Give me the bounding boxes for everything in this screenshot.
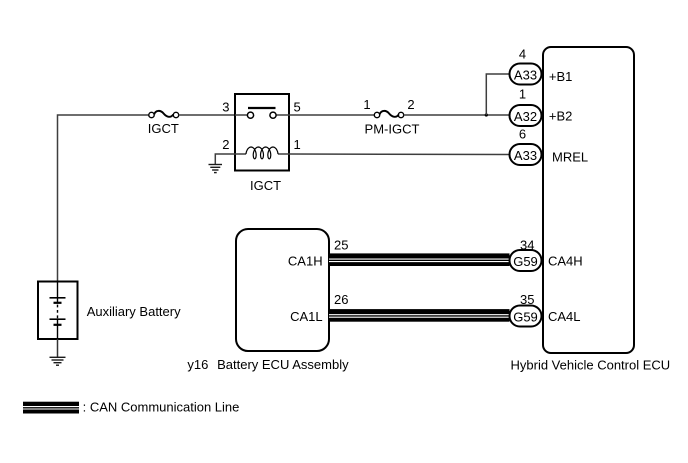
svg-text:6: 6 — [519, 127, 526, 142]
wire: branch junction to connector A33 +B1 — [486, 74, 509, 115]
svg-text:1: 1 — [294, 137, 301, 152]
ground (battery) — [50, 357, 66, 365]
svg-text:A33: A33 — [514, 148, 537, 163]
wire: relay pin 5 to fuse PM-IGCT — [289, 114, 374, 116]
CAN line CA1H-CA4H — [329, 253, 510, 266]
svg-text:Battery ECU Assembly: Battery ECU Assembly — [217, 357, 349, 372]
svg-text:26: 26 — [334, 292, 348, 307]
wire: fuse PM-IGCT to connector A32 — [404, 114, 510, 116]
fuse PM-IGCT — [374, 111, 403, 118]
relay IGCT box — [235, 94, 289, 171]
svg-text:+B2: +B2 — [549, 109, 573, 124]
wire: fuse IGCT to relay pin 3 — [179, 114, 235, 116]
svg-text:A32: A32 — [514, 109, 537, 124]
svg-text:: CAN Communication Line: : CAN Communication Line — [83, 400, 240, 415]
svg-text:+B1: +B1 — [549, 69, 573, 84]
svg-text:IGCT: IGCT — [148, 121, 179, 136]
svg-text:2: 2 — [407, 97, 414, 112]
svg-text:4: 4 — [519, 47, 526, 62]
svg-text:CA1H: CA1H — [288, 254, 323, 269]
wire: relay pin 2 to ground — [215, 154, 235, 164]
svg-text:5: 5 — [294, 100, 301, 115]
connector A32 (+B2) — [510, 105, 542, 126]
svg-text:CA4L: CA4L — [548, 309, 581, 324]
svg-text:CA1L: CA1L — [290, 309, 323, 324]
svg-text:2: 2 — [222, 137, 229, 152]
svg-text:IGCT: IGCT — [250, 178, 281, 193]
legend CAN sample line — [23, 402, 79, 414]
node junction dot — [485, 113, 488, 116]
wire: battery to ground — [57, 339, 59, 357]
svg-text:A33: A33 — [514, 67, 537, 82]
connector A33 (+B1) — [510, 64, 542, 85]
relay coil — [235, 147, 289, 159]
wire: battery feed, left vertical + top horizontal to fuse IGCT — [58, 115, 149, 282]
Hybrid Vehicle Control ECU box — [543, 47, 634, 353]
svg-text:G59: G59 — [513, 254, 538, 269]
battery cells — [50, 282, 66, 340]
svg-text:25: 25 — [334, 238, 348, 253]
wire: relay pin 1 to connector A33 MREL — [289, 153, 510, 156]
connector A33 (MREL) — [510, 144, 542, 165]
svg-text:Hybrid Vehicle Control ECU: Hybrid Vehicle Control ECU — [511, 358, 671, 373]
svg-text:G59: G59 — [513, 309, 538, 324]
connector G59 (CA4L) — [510, 306, 542, 327]
svg-text:MREL: MREL — [552, 150, 588, 165]
Battery ECU Assembly box — [236, 229, 329, 351]
svg-text:CA4H: CA4H — [548, 254, 583, 269]
svg-text:y16: y16 — [187, 357, 208, 372]
auxiliary battery box — [38, 282, 78, 340]
fuse IGCT — [149, 111, 179, 118]
svg-text:Auxiliary Battery: Auxiliary Battery — [87, 304, 181, 319]
CAN line CA1L-CA4L — [329, 309, 510, 322]
svg-text:1: 1 — [519, 86, 526, 101]
svg-text:PM-IGCT: PM-IGCT — [365, 122, 420, 137]
svg-text:3: 3 — [222, 100, 229, 115]
relay switch contacts — [235, 108, 289, 118]
connector G59 (CA4H) — [510, 250, 542, 271]
svg-text:1: 1 — [363, 97, 370, 112]
ground (relay) — [209, 165, 223, 173]
